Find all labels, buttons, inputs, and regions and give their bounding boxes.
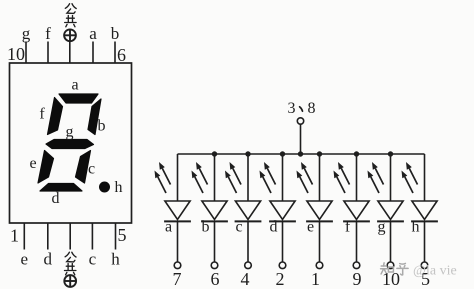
LED f cathode bar bbox=[343, 220, 370, 222]
junction dot: branch f bbox=[354, 151, 359, 156]
junction dot: branch c bbox=[245, 151, 250, 156]
junction dot: branch g bbox=[388, 151, 393, 156]
LED b light arrows bbox=[195, 177, 203, 193]
LED h diode triangle bbox=[412, 201, 437, 220]
segment f of digit bbox=[48, 98, 63, 135]
terminal circle pin 1 bbox=[316, 262, 323, 269]
junction dot: branch e bbox=[317, 151, 322, 156]
label 公 (bottom common) bbox=[65, 252, 76, 262]
LED e light arrows bbox=[300, 177, 308, 193]
wire LED c cathode to terminal bbox=[247, 221, 249, 262]
junction dot: branch b bbox=[212, 151, 217, 156]
junction dot: feed node bbox=[298, 151, 303, 156]
svg-text:f: f bbox=[345, 219, 351, 236]
LED f light arrows bbox=[337, 177, 345, 193]
svg-text:1: 1 bbox=[311, 269, 320, 289]
wire bus to LED f anode bbox=[356, 154, 358, 201]
wire LED h cathode to terminal bbox=[424, 221, 426, 262]
svg-text:2: 2 bbox=[276, 269, 285, 289]
common anode terminal circle bbox=[297, 118, 303, 124]
wire LED b cathode to terminal bbox=[214, 221, 216, 262]
LED g light arrows bbox=[371, 177, 379, 193]
LED f diode triangle bbox=[344, 201, 369, 220]
svg-text:3: 3 bbox=[288, 100, 296, 117]
segment b of digit bbox=[88, 99, 101, 135]
svg-text:a: a bbox=[89, 24, 97, 43]
svg-text:c: c bbox=[88, 161, 95, 178]
LED d diode triangle bbox=[270, 201, 295, 220]
bottom pin wire x=92.4 bbox=[91, 223, 93, 250]
wire bus to LED g anode bbox=[390, 154, 392, 201]
svg-text:h: h bbox=[115, 179, 123, 196]
svg-text:d: d bbox=[270, 219, 278, 236]
svg-text:8: 8 bbox=[308, 100, 316, 117]
terminal circle pin 5 bbox=[421, 262, 428, 269]
svg-text:b: b bbox=[202, 219, 210, 236]
LED c light arrows bbox=[228, 177, 236, 193]
7-segment display package outline U1 bbox=[10, 63, 132, 223]
wire LED e cathode to terminal bbox=[319, 221, 321, 262]
segment a of digit bbox=[59, 94, 98, 103]
segment e of digit bbox=[38, 151, 54, 184]
top pin wire x=69.8 bbox=[69, 42, 71, 64]
LED a light arrows bbox=[158, 177, 166, 193]
segment d of digit bbox=[40, 184, 82, 192]
LED b cathode bar bbox=[201, 220, 228, 222]
label 共 (top common) bbox=[65, 16, 76, 27]
label 共 (bottom common) bbox=[65, 264, 76, 275]
terminal circle pin 2 bbox=[279, 262, 286, 269]
svg-text:h: h bbox=[111, 250, 120, 269]
svg-text:6: 6 bbox=[117, 45, 126, 65]
LED g diode triangle bbox=[378, 201, 403, 220]
svg-text:la vie: la vie bbox=[426, 264, 457, 279]
svg-text:c: c bbox=[89, 250, 97, 269]
wire bus to LED e anode bbox=[319, 154, 321, 201]
svg-text:d: d bbox=[52, 190, 60, 207]
watermark 知乎 bbox=[381, 263, 394, 274]
bottom pin wire x=115.5 bbox=[115, 223, 117, 250]
terminal circle pin 10 bbox=[387, 262, 394, 269]
junction dot: branch d bbox=[280, 151, 285, 156]
svg-text:g: g bbox=[22, 24, 31, 43]
wire bus to LED c anode bbox=[247, 154, 249, 201]
wire bus to LED b anode bbox=[214, 154, 216, 201]
wire LED g cathode to terminal bbox=[390, 221, 392, 262]
svg-text:e: e bbox=[307, 219, 314, 236]
LED d light arrows bbox=[263, 177, 271, 193]
LED d cathode bar bbox=[269, 220, 296, 222]
svg-text:c: c bbox=[235, 219, 242, 236]
common anode symbol (bottom): circled plus bbox=[64, 275, 76, 287]
common anode symbol (top): circled plus bbox=[64, 29, 76, 41]
decimal point segment h bbox=[100, 182, 110, 192]
svg-text:a: a bbox=[165, 219, 172, 236]
svg-text:1: 1 bbox=[10, 226, 19, 246]
top pin wire x=93 bbox=[92, 42, 94, 64]
LED h light arrows bbox=[405, 177, 413, 193]
svg-text:5: 5 bbox=[118, 225, 127, 245]
LED a diode triangle bbox=[165, 201, 190, 220]
LED e diode triangle bbox=[307, 201, 332, 220]
svg-text:4: 4 bbox=[241, 269, 250, 289]
bottom pin wire x=24.3 bbox=[23, 223, 25, 250]
svg-text:f: f bbox=[39, 106, 45, 123]
terminal circle pin 4 bbox=[245, 262, 252, 269]
svg-text:g: g bbox=[378, 219, 386, 236]
top pin wire x=48 bbox=[47, 42, 49, 64]
anode bus wire bbox=[178, 153, 425, 155]
bottom pin wire x=47.8 bbox=[47, 223, 49, 250]
segment g of digit bbox=[46, 140, 94, 149]
svg-text:b: b bbox=[98, 118, 106, 135]
wire from common terminal to bus bbox=[300, 124, 302, 154]
wire LED f cathode to terminal bbox=[356, 221, 358, 262]
segment c of digit bbox=[76, 151, 91, 184]
svg-text:f: f bbox=[45, 24, 51, 43]
LED c diode triangle bbox=[235, 201, 260, 220]
terminal circle pin 7 bbox=[174, 262, 181, 269]
top pin wire x=115 bbox=[114, 42, 116, 64]
svg-text:a: a bbox=[71, 77, 78, 94]
wire LED a cathode to terminal bbox=[177, 221, 179, 262]
LED c cathode bar bbox=[235, 220, 262, 222]
svg-text:b: b bbox=[111, 24, 120, 43]
terminal circle pin 6 bbox=[211, 262, 218, 269]
LED g cathode bar bbox=[377, 220, 404, 222]
svg-text:@: @ bbox=[413, 264, 426, 279]
LED a cathode bar bbox=[164, 220, 191, 222]
svg-text:9: 9 bbox=[353, 269, 362, 289]
svg-text:e: e bbox=[29, 155, 36, 172]
svg-text:g: g bbox=[66, 124, 74, 141]
top pin wire x=26 bbox=[25, 42, 27, 64]
LED b diode triangle bbox=[202, 201, 227, 220]
wire bus to LED h anode bbox=[424, 154, 426, 201]
LED e cathode bar bbox=[306, 220, 333, 222]
svg-text:d: d bbox=[44, 250, 53, 269]
label 公 (top common) bbox=[65, 4, 76, 14]
svg-text:e: e bbox=[21, 250, 29, 269]
LED h cathode bar bbox=[411, 220, 438, 222]
svg-text:10: 10 bbox=[7, 44, 25, 64]
wire bus to LED d anode bbox=[282, 154, 284, 201]
wire bus to LED a anode bbox=[177, 154, 179, 201]
svg-text:7: 7 bbox=[173, 269, 182, 289]
terminal circle pin 9 bbox=[353, 262, 360, 269]
bottom pin wire x=70.2 bbox=[69, 223, 71, 250]
wire LED d cathode to terminal bbox=[282, 221, 284, 262]
svg-text:h: h bbox=[412, 219, 420, 236]
svg-text:6: 6 bbox=[211, 269, 220, 289]
